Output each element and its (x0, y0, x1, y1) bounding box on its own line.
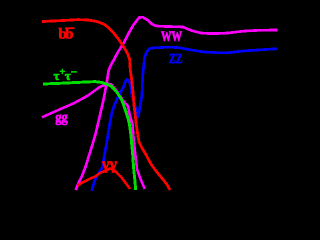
svg-text:τ: τ (65, 68, 71, 83)
svg-text:WW: WW (161, 29, 182, 45)
svg-text:γγ: γγ (101, 156, 118, 173)
svg-text:ZZ: ZZ (169, 51, 183, 66)
svg-text:−: − (71, 67, 77, 79)
svg-text:gg: gg (55, 110, 68, 126)
